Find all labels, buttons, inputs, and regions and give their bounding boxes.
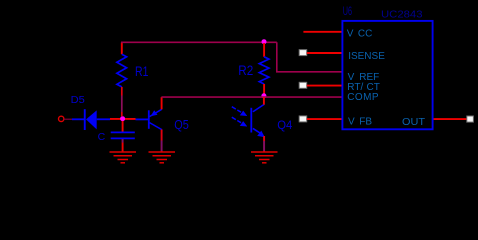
wire Q4 emitter to ground [263,136,265,152]
svg-text:UC2843: UC2843 [381,10,423,21]
ground (under Q4) [251,152,278,163]
node A junction dot [120,116,125,121]
svg-text:C: C [98,131,106,143]
wire Q5 collector to ground [161,130,163,152]
wire VFB pin [307,118,343,120]
wire D5 to node A [110,118,136,120]
capacitor C [111,132,135,138]
port terminal circle (input) [59,116,64,121]
ground (under Q5) [149,152,176,163]
wire RT/CT pin [307,85,343,87]
wire VCC pin [303,31,342,33]
wire Q5 emitter riser [161,97,163,109]
wire node A to capacitor [122,121,124,132]
svg-text:Q5: Q5 [174,118,189,132]
node C junction dot (R2 bottom / COMP net) [261,93,266,98]
terminal square (ISENSE) [299,50,307,56]
wire capacitor to ground [122,139,124,151]
svg-text:U6: U6 [343,6,352,19]
svg-text:R1: R1 [135,64,148,79]
node B junction dot (rail / R2 top) [262,39,267,44]
resistor R2 [259,43,269,95]
terminal square (RT/CT) [299,82,307,88]
svg-text:Q4: Q4 [277,120,293,132]
terminal square (VFB) [299,116,307,122]
svg-text:D5: D5 [71,95,86,106]
wire COMP net (Q5 emitter to COMP pin) [161,96,342,98]
svg-text:OUT: OUT [402,117,425,128]
svg-text:R2: R2 [238,63,253,78]
opto light arrow 2 [232,117,248,126]
svg-text:V CC: V CC [347,28,373,39]
opto light arrow 1 [232,107,248,116]
svg-text:ISENSE: ISENSE [348,51,385,62]
svg-text:V FB: V FB [348,117,372,128]
wire port to D5 cathode [64,118,73,120]
diode D5 [72,109,110,130]
wire top rail (R1 top to R2 top to VREF corner) [121,41,277,43]
wire VREF connector (rail corner down and right to pin) [277,42,343,72]
svg-text:COMP: COMP [347,92,379,103]
ground (under C) [110,152,137,163]
op-amp U6 IC body UC2843 [342,21,432,129]
wire Q4 collector riser [263,97,265,105]
wire ISENSE pin [307,52,343,54]
wire OUT pin [433,118,467,120]
resistor R1 [117,42,127,116]
transistor Q4 (opto NPN) [250,104,264,137]
terminal square (OUT) [467,116,474,122]
transistor Q5 (PNP) [136,109,162,130]
